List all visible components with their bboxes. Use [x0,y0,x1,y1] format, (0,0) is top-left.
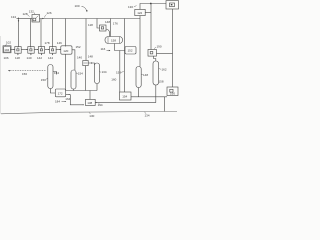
svg-text:162: 162 [162,68,167,72]
label 106 [4,56,9,60]
riser to unit B [29,19,31,48]
svg-text:148: 148 [88,55,93,59]
svg-text:134: 134 [145,114,150,118]
label 168 [78,72,83,76]
wire A to B [21,49,28,51]
wire 122 right to riser [145,11,151,13]
stub under B [30,53,32,55]
svg-text:158: 158 [159,80,164,84]
wire 128 bottom riser [172,9,174,87]
svg-text:142: 142 [37,56,42,60]
stub under C [40,53,42,55]
wire collector to box M [89,91,91,100]
label 162 [162,68,167,72]
label 144 [48,56,53,60]
long product line 156 [8,70,46,72]
box 122 [135,9,145,15]
svg-text:176: 176 [113,22,118,26]
riser right of 122 [150,4,152,50]
svg-text:154: 154 [122,95,127,99]
label 178 [45,41,50,45]
svg-text:172: 172 [58,91,63,95]
wire 172 outlet to box M [70,95,84,105]
svg-text:152: 152 [128,49,133,53]
svg-text:106: 106 [4,56,9,60]
page edge left [0,36,2,114]
label 100 figure pointer [75,4,80,8]
wire header after compressor [40,18,141,20]
svg-text:194: 194 [98,103,103,107]
label 134 bottom [145,114,150,118]
label 156 [22,72,27,76]
svg-text:160: 160 [111,77,116,81]
exchanger HX1 [83,61,88,66]
unit D [50,47,57,54]
label 148 hx [88,55,93,59]
svg-text:148: 148 [105,20,110,24]
column V1 [71,70,76,89]
svg-text:134: 134 [11,15,16,19]
wire B to C [34,49,38,51]
wire V0 bottom to box 172 [50,89,55,94]
label 148 colA [143,73,148,77]
wire down to unit A [18,18,20,48]
svg-text:132: 132 [29,9,34,13]
box 154 [120,92,132,100]
unit C [38,47,44,54]
svg-text:184: 184 [55,100,60,104]
label 132 [29,9,34,13]
svg-text:134: 134 [102,70,107,74]
wire 160 bottom [164,97,166,112]
svg-text:178: 178 [45,41,50,45]
riser to drum [109,19,111,37]
label 146 [57,41,62,45]
svg-text:190: 190 [157,45,162,49]
wire box190 right to riser [157,53,173,55]
svg-text:146: 146 [57,41,62,45]
column B [153,61,159,85]
svg-text:122: 122 [137,11,142,15]
wire box118 to drum [106,29,110,37]
label 140 hx [77,56,82,60]
box 172 [55,89,65,97]
wire V1 bottom [73,89,75,91]
label 134 V2 [102,70,107,74]
wire long return into box M [95,102,156,104]
unit B [28,47,34,54]
label 164 [65,97,70,101]
wire 104 to A [11,49,15,51]
label 194 [98,103,103,107]
riser to box 120 [65,19,67,47]
wire drum bottom to box 152 [115,44,125,51]
label 152 outlet [76,45,81,49]
unit A [15,47,21,54]
box 128 [166,1,179,9]
svg-text:126: 126 [47,11,52,15]
svg-text:148: 148 [143,73,148,77]
svg-text:140: 140 [77,56,82,60]
svg-text:104: 104 [4,48,9,52]
collector line [66,90,98,92]
label 118 [88,23,93,27]
box 160 [167,87,178,96]
column 150 (V0) [48,65,53,89]
label 102 [6,41,11,45]
wire box190 to column B [154,56,156,61]
wire colB bottom [155,85,157,103]
wire 154 to 160 [131,96,167,98]
wire drum line to box 154 [119,51,121,93]
riser to box 154 [124,19,126,93]
box M 136 [86,99,96,105]
svg-text:102: 102 [6,41,11,45]
stub under D [52,53,54,55]
svg-text:154: 154 [78,72,83,76]
box 152 [125,47,136,55]
svg-text:118: 118 [15,56,20,60]
riser to unit D [52,19,54,48]
wire 122 bottom to column A [139,16,141,67]
stub under A [17,53,19,55]
wire 122 up to 128 [140,4,166,10]
box 104 [3,46,11,53]
svg-text:130: 130 [89,114,94,118]
label 140 row [27,56,32,60]
wire 120 bottom drop [65,54,67,90]
label 134 feed [11,15,16,19]
valve box 190 [148,50,157,57]
box 120 [61,46,72,54]
compressor 132 [32,15,40,23]
column A [136,67,141,88]
wire HX1 to V2 [88,63,94,65]
label 142 [37,56,42,60]
svg-text:152: 152 [76,45,81,49]
svg-text:160: 160 [170,92,175,96]
svg-text:118: 118 [88,23,93,27]
label 176 [113,22,118,26]
label 128 [23,12,28,16]
side stub 154 [53,72,57,75]
svg-text:128: 128 [23,12,28,16]
svg-text:130: 130 [128,5,133,9]
wire C to D [45,49,50,51]
wire feed arrow [17,18,20,20]
label 150 mid [116,71,121,75]
wire 120 outlet [72,50,75,70]
wire D to 120 [56,49,61,51]
label 130 bottom [89,114,94,118]
svg-text:156: 156 [22,72,27,76]
riser to box 118 [97,19,100,29]
label 158 right [159,80,164,84]
junction dot [150,3,152,5]
svg-text:144: 144 [48,56,53,60]
label 126 [47,11,52,15]
svg-text:154: 154 [54,71,59,75]
label 184 [55,100,60,104]
box 118 unit [100,25,107,31]
label 150 V0 [41,78,46,82]
drum 158 [105,37,123,44]
svg-text:158: 158 [111,39,116,43]
svg-text:140: 140 [27,56,32,60]
wire HX1 bottom drop [85,66,87,91]
label 118 row [15,56,20,60]
svg-text:116: 116 [101,47,106,51]
wire V2 bottom [96,84,98,91]
wire 172 outlet [66,94,71,96]
svg-text:164: 164 [65,97,70,101]
wire header left segment [19,18,33,20]
riser to exchanger HX1 [85,19,87,61]
riser to unit C [40,19,42,48]
svg-text:100: 100 [75,4,80,8]
label 190 [157,45,162,49]
svg-text:138: 138 [87,101,92,105]
column V2 [95,63,100,84]
label 148 top [105,20,110,24]
wire colA bottom [138,88,140,97]
bottom long line [1,111,177,113]
label 116 [101,47,106,51]
label 130 [128,5,133,9]
svg-text:120: 120 [63,49,68,53]
svg-text:150: 150 [41,78,46,82]
